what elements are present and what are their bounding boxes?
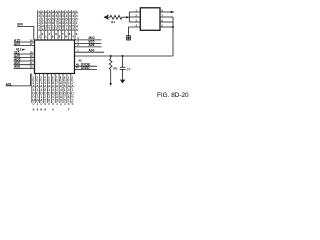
IC U300 (main chip body) <box>35 40 75 74</box>
wire signal M02 from U300 pin 4 (right) <box>75 36 102 40</box>
wire signal B05 from U300 pin 3 (right) <box>75 40 102 44</box>
wire top pin 5 of U300 <box>50 10 52 40</box>
net label 4A8D250 (vertical, bottom bus) <box>44 81 47 106</box>
svg-text:FIG. 8D-20: FIG. 8D-20 <box>157 92 189 99</box>
net label A4092 (vertical, top bus) <box>48 10 51 32</box>
net label A4014 (vertical, top bus) <box>76 10 79 32</box>
net label 5A1D360 (vertical, bottom bus) <box>48 81 51 106</box>
svg-text:411: 411 <box>16 48 22 52</box>
net label A4070 (vertical, top bus) <box>55 10 58 32</box>
net label 1A4D814 (vertical, bottom bus) <box>67 81 70 106</box>
wire top pin 8 of U300 <box>60 10 62 40</box>
wire bottom pin 9 of U300 <box>63 74 66 104</box>
wire vertical to long net <box>172 17 174 56</box>
wire bottom pin 5 of U300 <box>47 74 50 104</box>
wire top pin 7 of U300 <box>57 10 59 40</box>
net label A4114 (vertical, top bus) <box>42 10 45 32</box>
net label A4036 (vertical, top bus) <box>69 10 72 32</box>
svg-text:0: 0 <box>33 102 35 106</box>
svg-text:0: 0 <box>33 107 35 111</box>
net label A4047 (vertical, top bus) <box>65 10 68 32</box>
svg-text:A06: A06 <box>89 43 95 47</box>
net label 2A1D925 (vertical, bottom bus) <box>71 81 74 106</box>
svg-text:5: 5 <box>52 107 54 111</box>
reference 411 with arrow <box>16 48 26 52</box>
wire top pin 4 of U300 <box>47 10 49 40</box>
svg-text:AVDD: AVDD <box>81 66 90 70</box>
wire bottom pin 11 of U300 <box>71 74 74 104</box>
wire top pin 3 of U300 <box>43 10 45 40</box>
resistor R4 (horizontal) <box>110 15 122 19</box>
wire bottom pin 3 of U300 <box>40 74 43 104</box>
wire bottom pin 2 of U300 <box>36 74 39 104</box>
right signal rows top group <box>75 36 105 52</box>
pin numbers U302 <box>136 9 164 27</box>
node junction C <box>122 55 124 57</box>
terminal box 4 <box>127 36 131 40</box>
wire signal A00 from U300 pin 1 (right) <box>75 49 105 53</box>
node 300 label <box>17 23 23 27</box>
off-page arrow left <box>104 15 110 20</box>
svg-text:A08: A08 <box>14 65 20 69</box>
node junction R <box>110 55 112 57</box>
wire resistor to U302 <box>122 16 129 18</box>
wire top pin 11 of U300 <box>71 10 73 40</box>
net label 3A4D1A0 (vertical, bottom bus) <box>40 81 43 106</box>
net label 2A1D3W1 (vertical, bottom bus) <box>36 81 40 106</box>
wire bottom pin 4 of U300 <box>44 74 47 104</box>
wire signal A06 from U300 pin 2 (right) <box>75 43 102 47</box>
net label 6A4D470 (vertical, bottom bus) <box>52 81 55 106</box>
wire tie line left pins <box>128 12 130 22</box>
wire top pin 1 of U300 <box>37 10 39 40</box>
wire signal A25 to U300 pin 19 (left) <box>14 54 35 58</box>
wire signal A08 to U300 pin 22 (left) <box>14 65 35 69</box>
svg-text:4: 4 <box>68 102 70 106</box>
net label A4125 (vertical, top bus) <box>38 10 41 32</box>
svg-text:5: 5 <box>72 102 74 106</box>
wire top pin 10 of U300 <box>67 10 69 40</box>
wire U302 pin6 <box>160 21 173 23</box>
net label 7A1D581 (vertical, bottom bus) <box>56 81 59 106</box>
svg-text:3: 3 <box>37 107 39 111</box>
capacitor C7 (vertical) <box>120 56 131 83</box>
svg-text:A00: A00 <box>89 49 95 53</box>
wire pin4 to terminal box <box>129 27 141 36</box>
svg-text:C7: C7 <box>127 67 131 71</box>
resistor R5 (vertical) <box>109 56 117 86</box>
wire bottom pin 8 of U300 <box>59 74 62 104</box>
wire U302 pin8 with arrow <box>160 11 171 13</box>
wire top pin 6 of U300 <box>54 10 56 40</box>
net label 8A4D692 (vertical, bottom bus) <box>60 81 63 106</box>
svg-text:1: 1 <box>56 102 58 106</box>
svg-text:A05: A05 <box>14 42 20 46</box>
net label A4025 (vertical, top bus) <box>72 10 75 32</box>
svg-text:1: 1 <box>36 102 38 106</box>
svg-text:2: 2 <box>60 102 62 106</box>
wire signal 315 to U300 pin 18 (left) <box>14 50 35 54</box>
wire top pin 2 of U300 <box>40 10 42 40</box>
net label A4081 (vertical, top bus) <box>52 10 55 32</box>
net label A4103 (vertical, top bus) <box>45 10 48 32</box>
wire bottom pin 1 of U300 <box>32 74 35 104</box>
wire DVDB pin 46 <box>75 65 98 67</box>
wire U302 pin5 <box>160 26 173 28</box>
wire U302 pin7 <box>160 16 173 18</box>
svg-text:0: 0 <box>52 102 54 106</box>
IC U302 (small chip top right) <box>140 8 160 31</box>
net label A4069 (vertical, top bus) <box>59 10 62 32</box>
wire signal A15 to U300 pin 16 (left) <box>14 38 35 42</box>
wire top pin 9 of U300 <box>64 10 66 40</box>
wire A01 to chip bottom pin <box>6 74 31 86</box>
node tie junction <box>126 16 128 18</box>
wire top pin 12 of U300 <box>74 10 76 40</box>
svg-text:0: 0 <box>40 102 42 106</box>
wire signal A05 to U300 pin 17 (left) <box>14 42 35 46</box>
wire signal AD5 to U300 pin 20 (left) <box>14 57 35 61</box>
svg-text:R4: R4 <box>111 20 115 24</box>
wire bottom pin 6 of U300 <box>51 74 54 104</box>
bottom bus labels and pins <box>32 74 75 112</box>
wire pin45 long net to U302 <box>75 55 174 57</box>
net label 1A4D0M0 (vertical, bottom bus) <box>32 81 35 106</box>
net label 9A1D703 (vertical, bottom bus) <box>63 81 66 106</box>
svg-text:6: 6 <box>40 107 42 111</box>
net label A4058 (vertical, top bus) <box>62 10 65 32</box>
svg-text:0: 0 <box>44 102 46 106</box>
wire bottom pin 10 of U300 <box>67 74 70 104</box>
wire bottom pin 7 of U300 <box>55 74 58 104</box>
svg-text:7: 7 <box>68 107 70 111</box>
top bus labels and pins <box>38 10 79 40</box>
svg-text:9: 9 <box>44 107 46 111</box>
wire leader from 300 to chip <box>17 26 34 40</box>
wire AVDD pin 47 <box>75 69 98 71</box>
svg-text:0: 0 <box>48 102 50 106</box>
left signal rows <box>14 38 35 68</box>
svg-text:3: 3 <box>64 102 66 106</box>
node junction pin5 <box>172 26 174 28</box>
svg-text:R5: R5 <box>113 66 117 70</box>
wire signal A06 to U300 pin 21 (left) <box>14 61 35 65</box>
node A01 wire bottom-left <box>6 82 12 86</box>
